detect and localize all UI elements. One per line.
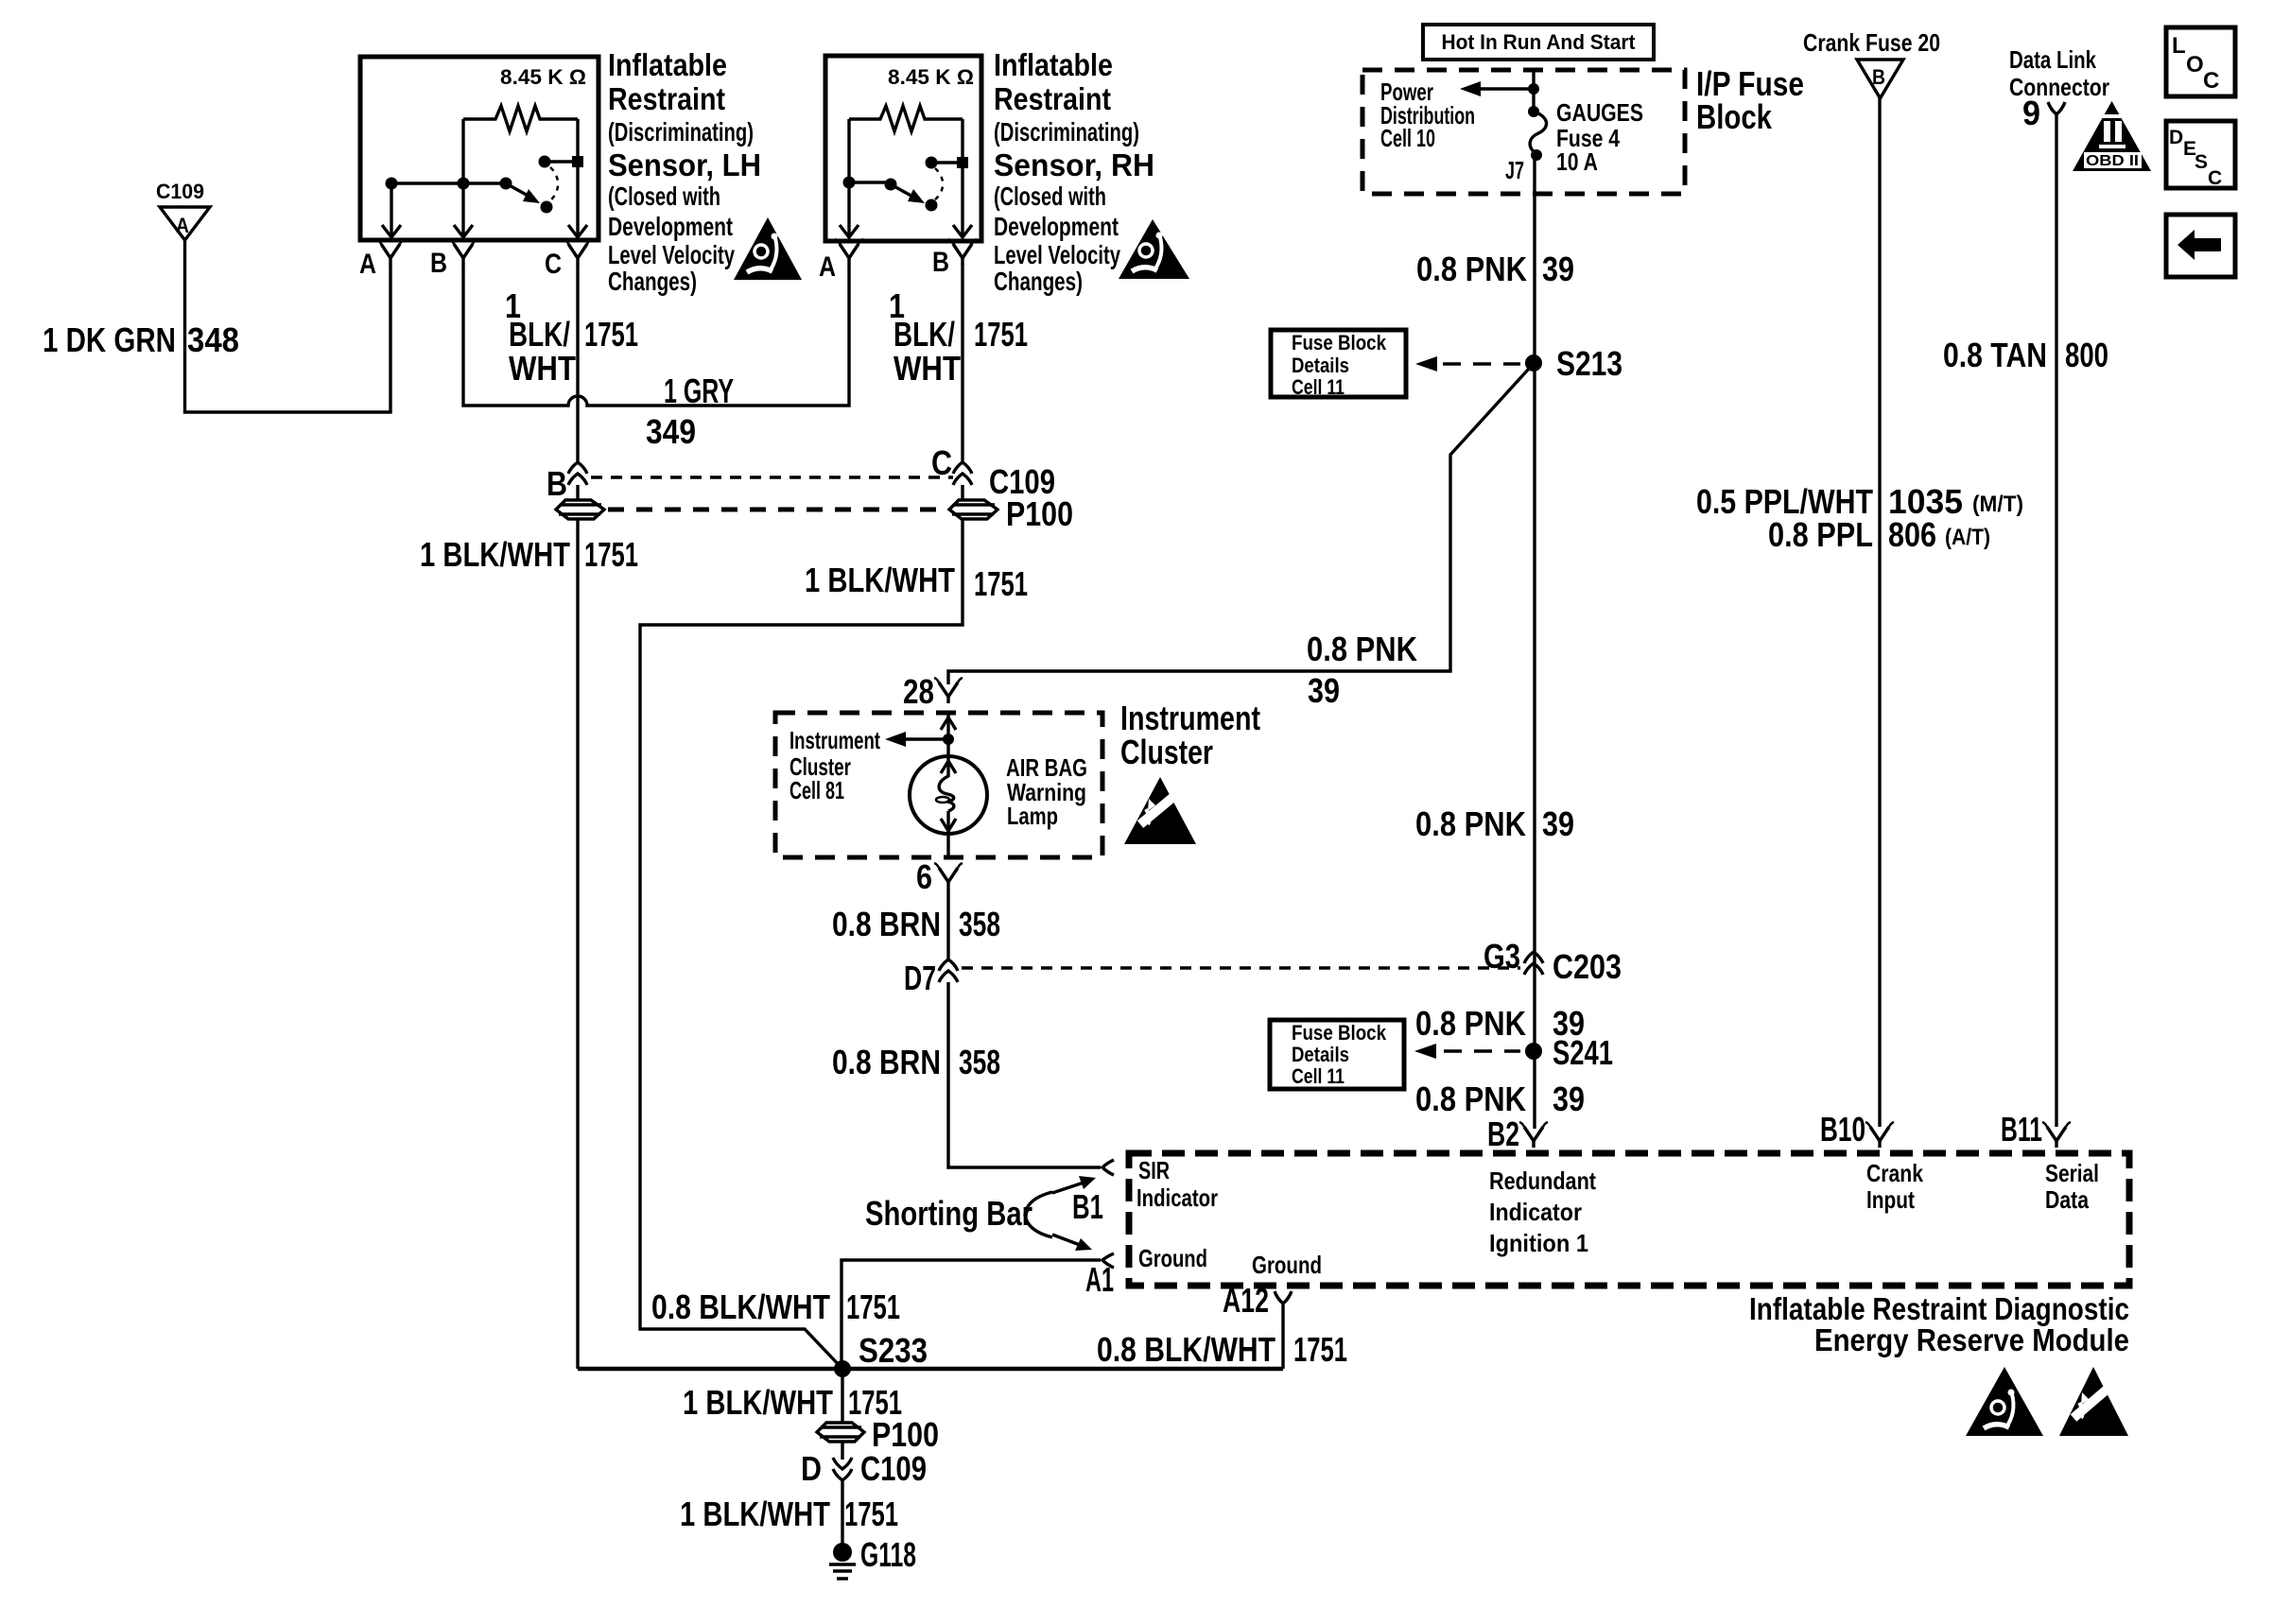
label 0.8 PNK 39 (below C203) [1415, 1004, 1585, 1043]
svg-text:D: D [2169, 127, 2183, 148]
svg-text:806: 806 [1888, 515, 1936, 554]
svg-text:(A/T): (A/T) [1945, 525, 1990, 550]
svg-text:Level Velocity: Level Velocity [608, 240, 735, 269]
svg-text:1 BLK/WHT: 1 BLK/WHT [680, 1494, 830, 1533]
label 0.8 PNK 39 (top) [1416, 250, 1574, 288]
svg-text:C203: C203 [1553, 947, 1622, 986]
svg-text:Inflatable Restraint Diagnosti: Inflatable Restraint Diagnostic [1749, 1291, 2129, 1326]
connector C109 pin A (triangle) [156, 180, 210, 240]
svg-text:348: 348 [187, 320, 239, 359]
wire 1 BLK/WHT 1751 label (sensor RH pin B) [889, 286, 1028, 388]
svg-text:B: B [430, 248, 447, 279]
module pin name Redundant Indicator Ignition 1 [1489, 1166, 1596, 1257]
svg-text:(M/T): (M/T) [1972, 492, 2023, 517]
svg-text:349: 349 [646, 412, 696, 451]
resistor inside sensor RH [849, 106, 963, 131]
svg-text:Hot In Run And Start: Hot In Run And Start [1442, 30, 1637, 54]
connector C109 pin C (double chevron) [931, 443, 1055, 501]
svg-text:L: L [2172, 33, 2186, 59]
svg-text:Energy Reserve Module: Energy Reserve Module [1814, 1322, 2129, 1357]
svg-text:0.8 PNK: 0.8 PNK [1415, 1004, 1526, 1043]
svg-text:G3: G3 [1484, 937, 1520, 976]
svg-text:B: B [932, 247, 949, 278]
Ground pin A1 (chevron) [1085, 1253, 1114, 1299]
label 1 DK GRN 348 [43, 320, 239, 359]
svg-text:P100: P100 [1006, 494, 1073, 533]
svg-text:8.45 K Ω: 8.45 K Ω [888, 65, 974, 89]
svg-text:1 BLK/WHT: 1 BLK/WHT [805, 561, 955, 599]
big label Inflatable Restraint Diagnostic Energy Reserve Module [1749, 1291, 2129, 1357]
svg-text:G118: G118 [860, 1535, 916, 1574]
svg-text:Restraint: Restraint [608, 81, 725, 116]
svg-text:A: A [359, 249, 376, 280]
module pin B10 [1820, 1110, 1894, 1149]
svg-text:Cell 81: Cell 81 [789, 776, 844, 804]
gauges fuse text [1556, 98, 1643, 176]
svg-text:Indicator: Indicator [1489, 1198, 1582, 1226]
svg-text:1 BLK/WHT: 1 BLK/WHT [420, 535, 570, 574]
svg-text:S241: S241 [1553, 1033, 1613, 1072]
svg-text:O: O [2186, 52, 2204, 78]
svg-text:1 BLK/WHT: 1 BLK/WHT [683, 1383, 833, 1422]
svg-text:WHT: WHT [894, 349, 961, 388]
legend box DESC [2166, 121, 2235, 189]
grommet P100 (bottom) [817, 1415, 939, 1454]
svg-text:0.8 BLK/WHT: 0.8 BLK/WHT [1097, 1330, 1275, 1369]
svg-text:C: C [931, 443, 952, 482]
big label I/P Fuse Block [1696, 64, 1804, 136]
svg-text:Input: Input [1866, 1185, 1915, 1214]
module pin name Serial Data [2045, 1159, 2099, 1214]
svg-text:C109: C109 [156, 180, 204, 203]
svg-text:OBD II: OBD II [2086, 153, 2139, 169]
svg-text:Inflatable: Inflatable [608, 47, 727, 82]
svg-text:0.8 PNK: 0.8 PNK [1307, 630, 1417, 668]
ground G118 [829, 1535, 916, 1579]
wire C109-D down to G118 [841, 1480, 843, 1545]
label 0.8 PPL 806 (A/T) [1768, 515, 1990, 554]
label 0.8 BRN 358 (lower) [832, 1043, 1000, 1081]
wire P100 to C109-D [841, 1442, 843, 1460]
svg-text:B: B [547, 464, 567, 503]
Hot In Run And Start box [1423, 25, 1654, 60]
label Data Link Connector [2009, 45, 2109, 101]
svg-text:C: C [2208, 167, 2222, 189]
grommet P100 (right) [949, 494, 1073, 533]
wire ground A1 left and down to S233 [842, 1260, 1101, 1369]
svg-text:C: C [2203, 68, 2219, 94]
legend box back arrow [2166, 215, 2235, 277]
big label Instrument Cluster [1120, 699, 1260, 771]
svg-text:Lamp: Lamp [1007, 802, 1058, 830]
svg-text:Changes): Changes) [994, 267, 1083, 296]
svg-text:39: 39 [1308, 671, 1340, 710]
svg-text:358: 358 [959, 1043, 1000, 1081]
label 0.8 BRN 358 (upper) [832, 905, 1000, 943]
svg-text:SIR: SIR [1138, 1156, 1170, 1184]
sensor RH pin B [932, 239, 977, 278]
svg-text:D: D [801, 1449, 822, 1488]
svg-text:J7: J7 [1505, 156, 1524, 184]
svg-text:Changes): Changes) [608, 267, 697, 296]
svg-text:Sensor, LH: Sensor, LH [608, 147, 761, 182]
connector C203 pin G3 (double chevron) [1484, 937, 1622, 986]
svg-text:(Discriminating): (Discriminating) [608, 117, 754, 147]
svg-text:Ignition 1: Ignition 1 [1489, 1229, 1588, 1257]
svg-text:Instrument: Instrument [789, 726, 880, 754]
svg-text:B: B [1872, 65, 1885, 89]
svg-text:B1: B1 [1072, 1187, 1103, 1226]
svg-text:1751: 1751 [974, 315, 1028, 354]
module pin A12 [1223, 1281, 1292, 1320]
svg-text:Fuse Block: Fuse Block [1292, 331, 1387, 354]
svg-text:A1: A1 [1085, 1260, 1114, 1299]
svg-text:9: 9 [2022, 94, 2040, 132]
wire below C109-B to P100 [576, 485, 579, 500]
svg-text:Ground: Ground [1252, 1251, 1322, 1279]
sensor RH pin A [819, 239, 863, 283]
svg-text:39: 39 [1542, 250, 1574, 288]
resistor inside sensor LH [463, 106, 578, 131]
label 0.8 BLK/WHT 1751 (A12 wire) [1097, 1330, 1347, 1369]
cluster internal wire with up arrow and tap dot [885, 713, 956, 756]
label 0.8 PNK 39 (above B2) [1415, 1080, 1585, 1118]
svg-text:Ground: Ground [1138, 1244, 1207, 1272]
svg-text:Level Velocity: Level Velocity [994, 240, 1120, 269]
label 0.8 PNK 39 (mid) [1415, 804, 1574, 843]
wire 0.8 BRN 358 from cluster pin 6 down to D7 [946, 889, 949, 959]
splice S233 [834, 1331, 928, 1377]
svg-text:(Closed with: (Closed with [994, 181, 1106, 211]
fuse GAUGES Fuse 4 10A [1528, 106, 1547, 161]
svg-text:Crank Fuse 20: Crank Fuse 20 [1803, 28, 1940, 57]
svg-text:GAUGES: GAUGES [1556, 98, 1643, 127]
label 0.8 TAN 800 [1943, 336, 2108, 374]
svg-text:Serial: Serial [2045, 1159, 2099, 1187]
svg-text:1751: 1751 [584, 315, 638, 354]
ESD warning triangle (module) [2059, 1367, 2128, 1436]
svg-text:39: 39 [1542, 804, 1574, 843]
AIR BAG warning lamp (bulb) [910, 756, 987, 857]
svg-text:S213: S213 [1556, 344, 1622, 383]
wire sensor RH pin B down to connector C109-C [961, 264, 963, 462]
module pin name SIR Indicator [1136, 1156, 1218, 1212]
wire sensor LH pin C down to connector C109-B [576, 264, 579, 462]
connector C109 pin B (double chevron) [547, 462, 587, 503]
svg-text:Block: Block [1696, 97, 1773, 136]
svg-text:0.8 BRN: 0.8 BRN [832, 905, 941, 943]
svg-text:Shorting Bar: Shorting Bar [865, 1194, 1032, 1233]
OBD II warning triangle [2073, 101, 2151, 171]
svg-text:39: 39 [1553, 1080, 1585, 1118]
svg-text:Instrument: Instrument [1120, 699, 1260, 737]
wire 0.8 PNK from S213 diagonal down to cluster pin 28 [948, 369, 1529, 684]
svg-text:Development: Development [608, 212, 733, 241]
svg-text:B2: B2 [1487, 1114, 1519, 1153]
dashed connector line C203 D7 to G3 [962, 966, 1520, 969]
svg-text:1751: 1751 [844, 1494, 898, 1533]
dashed connector line C109 B to C [591, 475, 953, 478]
module pin name Crank Input [1866, 1159, 1923, 1214]
svg-text:Inflatable: Inflatable [994, 47, 1113, 82]
wire S233 down to P100 [841, 1369, 843, 1423]
instrument cluster dashed box [775, 713, 1102, 857]
connector C203 pin D7 (double chevron) [904, 959, 958, 997]
wire P100 down long run to S233 corner [576, 519, 579, 1369]
wire A12 riser [1281, 1304, 1284, 1369]
svg-text:D7: D7 [904, 959, 936, 997]
svg-text:1751: 1751 [846, 1287, 900, 1326]
svg-text:P100: P100 [872, 1415, 939, 1454]
svg-text:358: 358 [959, 905, 1000, 943]
I/P fuse block dashed box [1362, 70, 1685, 194]
cluster cell reference text [789, 726, 880, 804]
svg-text:Restraint: Restraint [994, 81, 1111, 116]
svg-text:Cell 11: Cell 11 [1292, 375, 1345, 399]
svg-text:Cell 10: Cell 10 [1380, 124, 1435, 152]
SIR warning triangle (RH) [1119, 219, 1189, 279]
sensor LH pin A [359, 239, 405, 280]
svg-text:S: S [2195, 151, 2208, 173]
svg-text:0.8 PNK: 0.8 PNK [1415, 804, 1526, 843]
SIR warning triangle (module) [1966, 1367, 2043, 1436]
splice S241 [1525, 1033, 1613, 1072]
svg-text:0.8 BLK/WHT: 0.8 BLK/WHT [651, 1287, 830, 1326]
svg-text:800: 800 [2065, 336, 2108, 374]
DLC pin 9 [2022, 94, 2065, 132]
connector C109 pin D (double chevron down) [801, 1449, 927, 1488]
svg-text:1751: 1751 [974, 564, 1028, 603]
svg-text:B11: B11 [2001, 1110, 2042, 1149]
Inflatable Restraint Sensor LH box [360, 57, 599, 240]
fuse block details box (lower) [1270, 1020, 1404, 1089]
svg-text:0.8 PPL: 0.8 PPL [1768, 515, 1873, 554]
label 0.5 PPL/WHT 1035 (M/T) [1696, 482, 2023, 521]
svg-text:BLK/: BLK/ [509, 315, 570, 354]
shorting bar bracket with two arrows [1025, 1176, 1096, 1251]
wire RH branch: down, left, down, right, diagonal to S233 [640, 519, 963, 1369]
svg-text:S233: S233 [859, 1331, 928, 1370]
wire 1 BLK/WHT 1751 label (sensor LH pin C) [505, 286, 638, 388]
svg-text:Sensor, RH: Sensor, RH [994, 147, 1154, 182]
svg-text:0.8 TAN: 0.8 TAN [1943, 336, 2047, 374]
SIR Indicator pin B1 (chevron) [1072, 1160, 1114, 1226]
label 0.8 BLK/WHT 1751 (A1 ground wire) [651, 1287, 900, 1326]
svg-text:Indicator: Indicator [1136, 1183, 1218, 1212]
svg-text:WHT: WHT [509, 349, 576, 388]
svg-text:(Closed with: (Closed with [608, 181, 720, 211]
svg-text:1 DK GRN: 1 DK GRN [43, 320, 176, 359]
label 1 BLK/WHT 1751 (bottom) [680, 1494, 898, 1533]
sensor RH internal switch network [840, 119, 972, 238]
power distribution cell text [1380, 78, 1475, 152]
svg-text:Fuse Block: Fuse Block [1292, 1021, 1387, 1045]
svg-text:Crank: Crank [1866, 1159, 1923, 1187]
label 1 BLK/WHT 1751 (RH branch) [805, 561, 1028, 603]
fuse block details box (upper) [1271, 330, 1406, 399]
svg-text:28: 28 [903, 672, 934, 711]
sensor RH name label [994, 47, 1154, 296]
svg-text:6: 6 [916, 857, 932, 896]
svg-text:(Discriminating): (Discriminating) [994, 117, 1139, 147]
svg-text:1751: 1751 [1293, 1330, 1347, 1369]
svg-text:C109: C109 [860, 1449, 927, 1488]
svg-text:Details: Details [1292, 1043, 1349, 1066]
module pin B2 [1487, 1114, 1548, 1153]
svg-text:10 A: 10 A [1556, 147, 1598, 176]
wire 1 DK GRN 348 from C109-A to sensor LH pin A [185, 240, 391, 412]
svg-text:0.8 BRN: 0.8 BRN [832, 1043, 941, 1081]
wire 0.8 BRN 358 from D7 down and right to SIR Indicator pin [948, 982, 1101, 1167]
svg-text:Redundant: Redundant [1489, 1166, 1596, 1195]
wire below C109-C to P100 right [961, 485, 963, 500]
SIR warning triangle (LH) [734, 217, 802, 280]
svg-text:8.45 K Ω: 8.45 K Ω [500, 65, 586, 89]
svg-text:Data: Data [2045, 1185, 2089, 1214]
sensor LH pin B [430, 239, 477, 279]
grommet P100 (left) [556, 500, 604, 519]
legend box LOC [2166, 27, 2235, 96]
svg-text:Data Link: Data Link [2009, 45, 2096, 74]
connector Crank Fuse triangle B [1857, 60, 1903, 98]
svg-text:Cluster: Cluster [1120, 733, 1213, 771]
dashed grommet line P100 left-right [608, 508, 946, 512]
label 1 BLK/WHT 1751 (below S233) [683, 1383, 902, 1422]
wire fuse J7 down to S213 and on to B2 [1533, 155, 1536, 1129]
svg-text:A: A [176, 214, 189, 237]
dashed arrow to fuse block details (S241) [1414, 1044, 1520, 1059]
svg-text:Details: Details [1292, 354, 1349, 377]
svg-text:0.8 PNK: 0.8 PNK [1416, 250, 1527, 288]
cluster pin 6 [916, 857, 963, 896]
lamp label AIR BAG Warning Lamp [1006, 753, 1087, 830]
wire hot feed into fuse block [1532, 68, 1535, 112]
wire serial data down to B11 [2055, 114, 2057, 1127]
svg-text:1 GRY: 1 GRY [664, 371, 734, 410]
svg-text:0.8 PNK: 0.8 PNK [1415, 1080, 1526, 1118]
sensor LH pin C [545, 239, 592, 280]
sensor LH name label [608, 47, 761, 296]
label 1 BLK/WHT 1751 (left long wire) [420, 535, 638, 574]
wire 1 GRY 349 from LH pin B to RH pin A (with hop) [463, 264, 849, 406]
Inflatable Restraint Sensor RH box [825, 56, 981, 241]
power distribution tap arrow [1460, 81, 1539, 96]
ESD warning triangle (cluster) [1124, 777, 1196, 844]
module pin B11 [2001, 1110, 2071, 1149]
svg-text:A: A [819, 251, 836, 283]
Inflatable Restraint Diagnostic Energy Reserve Module dashed box [1129, 1153, 2129, 1286]
svg-text:Development: Development [994, 212, 1119, 241]
svg-text:B10: B10 [1820, 1110, 1865, 1149]
splice S213 [1525, 344, 1622, 383]
svg-text:BLK/: BLK/ [894, 315, 955, 354]
cluster pin 28 [903, 672, 963, 711]
svg-text:Cell 11: Cell 11 [1292, 1064, 1345, 1088]
svg-text:C: C [545, 249, 562, 280]
sensor LH internal switch network [382, 119, 587, 238]
main ground bus wire S233 horizontal [578, 1367, 1283, 1372]
dashed arrow to fuse block details (S213) [1415, 356, 1520, 371]
svg-text:1751: 1751 [584, 535, 638, 574]
wire crank input down to B10 [1878, 98, 1881, 1127]
